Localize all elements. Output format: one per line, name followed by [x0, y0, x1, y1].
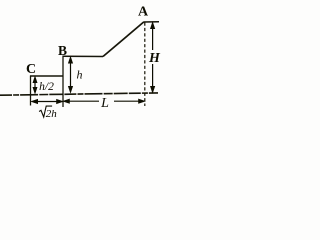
incline wire [103, 22, 144, 57]
label sqrt(2)h [39, 106, 57, 120]
L dimension (outward arrows) [64, 99, 145, 103]
step edge at B [62, 56, 64, 108]
svg-text:h: h [77, 68, 83, 82]
H dimension arrow [151, 23, 155, 93]
sqrt(2)h dimension (outward arrows) [32, 100, 63, 104]
dashed drop line under A [144, 23, 146, 107]
svg-text:H: H [148, 51, 161, 66]
step edge at C [30, 76, 32, 106]
label L [99, 96, 114, 111]
step top at C [30, 75, 64, 77]
svg-text:L: L [100, 96, 109, 111]
svg-text:B: B [58, 43, 67, 58]
svg-text:h/2: h/2 [39, 81, 54, 93]
ground line [0, 93, 158, 95]
step top at B [63, 55, 104, 57]
svg-text:C: C [26, 62, 36, 77]
plateau at A [144, 21, 160, 23]
h/2 dimension arrow [33, 77, 37, 93]
svg-text:2h: 2h [46, 108, 58, 120]
h dimension arrow [69, 57, 73, 92]
svg-text:A: A [138, 5, 149, 20]
